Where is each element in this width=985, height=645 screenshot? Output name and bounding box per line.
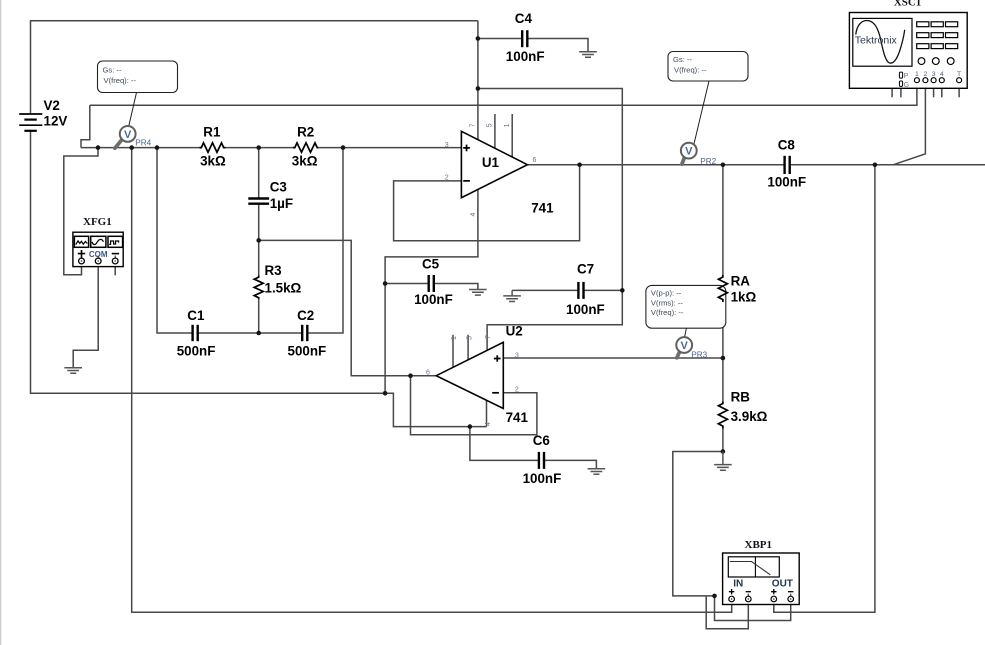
svg-text:7: 7 xyxy=(485,335,492,339)
svg-text:1kΩ: 1kΩ xyxy=(731,290,757,305)
XSC1 pin labels xyxy=(915,71,961,78)
wire U2 unused top stub pin 5 xyxy=(467,335,469,360)
svg-text:PR4: PR4 xyxy=(135,139,151,148)
svg-text:100nF: 100nF xyxy=(506,49,545,64)
wire scope pin 3 stub xyxy=(933,83,935,98)
wire C4 right to ground xyxy=(528,39,589,52)
node V+ at C7 xyxy=(620,288,625,293)
svg-text:3: 3 xyxy=(445,142,449,149)
wire RB bottom to ground node xyxy=(722,429,724,452)
svg-text:V: V xyxy=(681,340,689,352)
op-amp U2 741 xyxy=(426,324,528,426)
svg-text:C8: C8 xyxy=(778,138,796,153)
node V- at C6 leg xyxy=(468,424,473,429)
wire XFG1 COM to ground xyxy=(73,264,98,368)
node R3 bottom on C1-C2 rail xyxy=(256,331,261,336)
svg-text:V2: V2 xyxy=(44,98,60,113)
svg-text:U2: U2 xyxy=(506,324,523,339)
svg-text:4: 4 xyxy=(940,71,944,78)
wire U2 pin 4 stub xyxy=(486,400,488,426)
svg-text:XSC1: XSC1 xyxy=(894,0,922,9)
svg-text:12V: 12V xyxy=(44,114,68,129)
wire XFG1 + terminal feed xyxy=(64,148,98,275)
svg-text:6: 6 xyxy=(533,157,537,164)
probe PR4 callout xyxy=(98,61,178,126)
resistor R3 1.5k xyxy=(254,263,301,299)
node main rail at C2 leg xyxy=(341,145,346,150)
ground at XFG1 xyxy=(64,368,82,374)
node U1 output feedback xyxy=(577,163,582,168)
svg-text:RB: RB xyxy=(731,389,751,404)
wire scope channel 2 to output xyxy=(893,83,925,165)
svg-text:C4: C4 xyxy=(515,11,533,26)
capacitor C8 100nF xyxy=(767,138,806,190)
node junction dots xyxy=(96,36,878,598)
wire R3 top xyxy=(258,240,260,275)
XBP1 terminals xyxy=(729,596,794,602)
svg-text:1: 1 xyxy=(915,71,919,78)
svg-text:XFG1: XFG1 xyxy=(83,216,112,228)
svg-text:1: 1 xyxy=(451,336,458,340)
wire V+ column down to U1 pin 7 xyxy=(477,21,479,140)
node RA-RB PR3 xyxy=(721,356,726,361)
ground at C5 xyxy=(469,290,487,296)
wire ground node to bode plotter commons xyxy=(673,452,723,596)
resistor R1 3k xyxy=(200,125,226,169)
resistor RB 3.9k xyxy=(718,389,767,428)
ground at C7 xyxy=(503,290,521,301)
wire PR3 node to U2 pin 3 xyxy=(503,357,723,359)
wire U1 feedback loop pin6 to pin2 xyxy=(394,165,580,241)
XFG1 terminals xyxy=(98,256,115,259)
ground at C4 xyxy=(579,52,597,58)
probe PR4 xyxy=(115,126,152,148)
canvas left edge xyxy=(0,0,2,645)
node output at bode OUT+ xyxy=(873,163,878,168)
wire scope pin 4 stub xyxy=(941,83,943,98)
op-amp U1 741 xyxy=(445,123,554,216)
XFG1 wave buttons xyxy=(74,236,88,247)
svg-text:PR2: PR2 xyxy=(700,157,716,166)
wire bode OUT+ to output node xyxy=(774,165,875,613)
svg-text:1µF: 1µF xyxy=(270,196,293,211)
wire U1 unused top stub pin 1 xyxy=(511,114,513,157)
svg-text:4: 4 xyxy=(485,422,492,426)
wire C4 left xyxy=(478,38,522,40)
svg-text:XBP1: XBP1 xyxy=(745,539,773,551)
svg-text:R1: R1 xyxy=(203,125,221,140)
XFG1 terminal labels xyxy=(78,250,85,258)
svg-text:V(rms): --: V(rms): -- xyxy=(651,299,684,308)
svg-text:PR3: PR3 xyxy=(691,350,707,359)
svg-text:5: 5 xyxy=(487,123,494,127)
capacitor C4 100nF xyxy=(506,11,545,64)
wire V- jog to U2 pin 4 xyxy=(385,393,486,426)
XSC1 screen sine xyxy=(856,21,905,64)
svg-text:V(p-p): --: V(p-p): -- xyxy=(651,289,682,298)
svg-text:741: 741 xyxy=(531,201,554,216)
wire V+ east branch to C7 and U2 pin 7 xyxy=(478,89,622,351)
svg-text:C3: C3 xyxy=(270,180,287,195)
svg-text:V(freq): --: V(freq): -- xyxy=(674,65,707,74)
wire main rail left segment xyxy=(81,147,200,149)
node V+ east branch xyxy=(476,86,481,91)
battery V2 xyxy=(19,98,67,131)
oscilloscope XSC1 xyxy=(849,0,967,89)
wire scope P hook stub xyxy=(892,75,899,98)
wire scope G stub xyxy=(900,86,902,97)
svg-text:500nF: 500nF xyxy=(177,343,216,358)
capacitor C3 1uF xyxy=(248,180,293,211)
wire C3 top leg xyxy=(258,148,260,199)
svg-text:V: V xyxy=(124,129,132,141)
svg-text:Gs: --: Gs: -- xyxy=(673,55,692,64)
svg-text:7: 7 xyxy=(470,123,477,127)
capacitor C5 100nF xyxy=(414,257,453,307)
wire U1 output to C8 xyxy=(527,164,784,166)
wire top V+ rail from battery to C4 column xyxy=(31,21,478,114)
node V- at C5 xyxy=(383,281,388,286)
XSC1 P G connectors xyxy=(899,72,902,78)
XBP1 terminal marks xyxy=(729,589,734,594)
XSC1 knobs xyxy=(918,58,954,65)
svg-text:100nF: 100nF xyxy=(523,471,562,486)
svg-text:100nF: 100nF xyxy=(566,302,605,317)
wire input step down to main rail xyxy=(81,105,90,147)
wire C1 to C2 xyxy=(198,332,302,334)
svg-text:2: 2 xyxy=(445,174,449,181)
wire bode OUT- to common node xyxy=(715,596,791,621)
svg-text:P: P xyxy=(904,73,909,80)
node main rail R1/R2/C3 xyxy=(256,145,261,150)
svg-text:100nF: 100nF xyxy=(767,174,806,189)
wire main rail R2 to U1 pin 3 xyxy=(318,147,461,149)
ground at RB xyxy=(714,452,732,471)
svg-text:V(freq): --: V(freq): -- xyxy=(104,76,137,85)
svg-text:V(freq): --: V(freq): -- xyxy=(651,308,684,317)
wire C7 right to V+ column xyxy=(584,289,623,291)
wire R3 bottom xyxy=(258,299,260,333)
svg-text:2: 2 xyxy=(515,386,519,393)
svg-text:G: G xyxy=(904,82,909,89)
svg-text:IN: IN xyxy=(733,578,743,589)
svg-text:C5: C5 xyxy=(422,257,440,272)
probe PR2 xyxy=(681,143,717,166)
svg-text:1: 1 xyxy=(504,123,511,127)
svg-text:5: 5 xyxy=(466,336,473,340)
wire C2 right leg up to main rail xyxy=(307,148,343,333)
wire output node down to RA xyxy=(722,165,724,275)
probe PR3 callout xyxy=(646,285,726,338)
XSC1 buttons xyxy=(917,22,958,49)
probe PR2 callout xyxy=(668,52,748,144)
svg-text:3: 3 xyxy=(932,71,936,78)
svg-text:C7: C7 xyxy=(577,262,594,277)
svg-text:R3: R3 xyxy=(265,263,282,278)
svg-text:Tektronix: Tektronix xyxy=(855,34,898,46)
svg-text:3.9kΩ: 3.9kΩ xyxy=(731,409,768,424)
svg-text:741: 741 xyxy=(506,410,529,425)
wire C1 left leg xyxy=(157,148,192,333)
svg-text:U1: U1 xyxy=(482,155,500,170)
node V+ at C4 xyxy=(476,36,481,41)
wire U1 pin 4 to V- node xyxy=(385,190,478,393)
node main rail at bode IN+ drop xyxy=(129,145,134,150)
svg-text:3kΩ: 3kΩ xyxy=(292,153,318,168)
probe PR3 xyxy=(676,337,707,359)
svg-text:3kΩ: 3kΩ xyxy=(200,153,226,168)
svg-text:R2: R2 xyxy=(297,125,314,140)
svg-text:2: 2 xyxy=(924,71,928,78)
wire C5 right to ground xyxy=(434,284,478,290)
wire U2 feedback pin2 to output xyxy=(411,376,537,435)
svg-text:C6: C6 xyxy=(533,433,550,448)
wire RA to PR3 node xyxy=(722,302,724,402)
svg-text:100nF: 100nF xyxy=(414,292,453,307)
svg-text:OUT: OUT xyxy=(772,578,793,589)
node RB ground xyxy=(721,449,726,454)
node C3 bottom xyxy=(256,238,261,243)
svg-text:1.5kΩ: 1.5kΩ xyxy=(265,281,302,296)
function generator XFG1 xyxy=(73,216,123,267)
node U2 output xyxy=(408,373,413,378)
wire scope pin T stub xyxy=(958,83,960,98)
ground at C6 xyxy=(588,469,606,475)
svg-text:C2: C2 xyxy=(297,308,314,323)
wire input node to scope channel 1 xyxy=(90,83,917,106)
XSC1 screen xyxy=(853,18,912,66)
svg-text:V: V xyxy=(685,146,693,158)
wire C3 node across and down to U2 output xyxy=(259,240,437,375)
capacitor C2 500nF xyxy=(288,308,327,358)
wire bode IN- to common node xyxy=(706,596,748,629)
svg-text:RA: RA xyxy=(731,274,751,289)
svg-text:6: 6 xyxy=(426,370,430,377)
wire XFG1 minus stub xyxy=(114,264,116,275)
resistor RA 1k xyxy=(718,274,756,305)
wire C5 left xyxy=(385,283,428,285)
svg-text:C1: C1 xyxy=(187,308,205,323)
svg-text:T: T xyxy=(957,71,961,78)
resistor R2 3k xyxy=(292,125,319,169)
svg-text:Gs: --: Gs: -- xyxy=(103,65,122,74)
node bode common xyxy=(712,594,717,599)
wire U2 unused top stub pin 1 xyxy=(452,335,454,367)
wire C8 right to canvas edge xyxy=(790,164,985,166)
wire C7 ground side xyxy=(512,289,578,291)
wire main rail between R1 and R2 xyxy=(226,147,293,149)
wire C6 left leg xyxy=(470,427,539,461)
bode plotter XBP1 xyxy=(723,539,800,605)
XSC1 pin terminals xyxy=(914,78,961,83)
capacitor C6 100nF xyxy=(523,433,562,486)
wire node to bode plotter IN+ xyxy=(132,148,732,613)
wire C6 right to ground xyxy=(544,460,596,468)
wire battery negative rail xyxy=(31,131,386,394)
capacitor C1 500nF xyxy=(177,308,216,358)
wire C3 bottom to node xyxy=(258,204,260,240)
svg-text:500nF: 500nF xyxy=(288,343,327,358)
XBP1 screen xyxy=(728,557,779,577)
node main rail at XFG feed xyxy=(96,145,101,150)
node main rail at C1 leg xyxy=(155,145,160,150)
node output at RA xyxy=(721,163,726,168)
svg-text:4: 4 xyxy=(470,213,477,217)
svg-text:3: 3 xyxy=(515,353,519,360)
XBP1 response curve xyxy=(730,562,771,575)
node V- at battery rail xyxy=(383,391,388,396)
wire U1 unused top stub pin 5 xyxy=(494,114,496,148)
capacitor C7 100nF xyxy=(566,262,605,317)
